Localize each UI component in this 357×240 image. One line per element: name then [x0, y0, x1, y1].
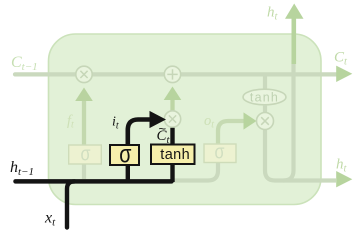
wire: branch up to input sigma box [126, 165, 130, 182]
wire: output x circle down and right to h output [265, 130, 336, 181]
wire: x_t vertical joining h line [67, 181, 75, 227]
forget gate branch vertical below box (faded) [82, 164, 86, 179]
wire: h_{t-1} main black line [16, 179, 172, 184]
output sigma box faded [204, 144, 236, 163]
multiply circle on C line (forget) [76, 66, 92, 82]
svg-text:σ: σ [215, 142, 226, 164]
forget gate output arrow (faded green) [82, 99, 86, 145]
arrowhead h_t right [336, 171, 352, 187]
wire: branch up to tanh box and down from tanh box [170, 164, 174, 183]
wire: faded h line from tanh branch to output gate box [174, 163, 219, 181]
tanh ellipse branch from C line [263, 76, 267, 90]
tanh box [151, 145, 195, 165]
plus circle on C line [164, 66, 180, 82]
sigma box input gate [110, 145, 139, 165]
output gate curve into multiply (faded) [218, 121, 246, 144]
wire: cell state C line (faded) [15, 72, 337, 76]
svg-text:tanh: tanh [250, 90, 279, 104]
forget sigma box (faded) [69, 145, 102, 164]
multiply circle input gate (faded) [164, 111, 180, 127]
arrowhead C_t right [336, 66, 352, 82]
svg-text:~: ~ [159, 121, 167, 136]
input gate product arrow up into + (faded) [170, 100, 174, 111]
multiply circle output (faded) [257, 113, 274, 130]
svg-text:σ: σ [81, 144, 92, 166]
svg-text:tanh: tanh [160, 147, 190, 163]
wire: input gate output arrow curving right [128, 120, 150, 146]
wire: h_t top branch upper green shaft [291, 19, 296, 65]
wire: h_t top branch (inside cell, faded gray) [284, 60, 294, 181]
LSTM cell body [49, 34, 322, 205]
svg-text:σ: σ [119, 140, 132, 168]
arrowhead h_t top [285, 4, 304, 19]
